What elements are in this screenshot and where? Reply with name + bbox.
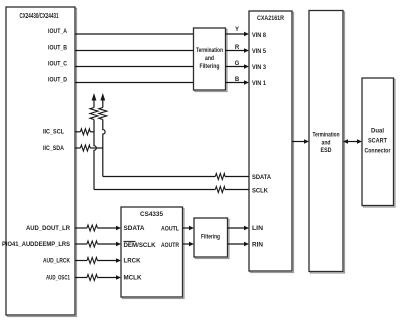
- wire pullup right lower with hop at SCL crossing: [103, 120, 105, 177]
- wire AOUTL with arrow into Filtering: [183, 226, 195, 231]
- svg-text:SCLK: SCLK: [252, 188, 269, 194]
- svg-text:AUD_LRCK: AUD_LRCK: [43, 259, 71, 265]
- IC U3 CS4335 block: [121, 207, 184, 299]
- svg-text:Connector: Connector: [365, 149, 392, 155]
- svg-text:SDATA: SDATA: [124, 226, 146, 232]
- svg-text:B: B: [235, 77, 240, 83]
- wire PIO41_AUDDEEMP_LRS with resistor R8 and arrow into CS4335: [75, 241, 121, 247]
- svg-text:AUD_OSC1: AUD_OSC1: [46, 276, 70, 282]
- svg-text:AUD_DOUT_LR: AUD_DOUT_LR: [26, 226, 71, 232]
- IC U2 CXA2161R block: [249, 11, 294, 273]
- wire CXA2161R to Termination and ESD with right arrow: [292, 139, 309, 144]
- wire B with arrow into CXA2161R: [226, 80, 250, 85]
- svg-text:IOUT_B: IOUT_B: [48, 46, 68, 52]
- svg-text:IOUT_A: IOUT_A: [48, 29, 68, 35]
- svg-text:Termination: Termination: [313, 133, 340, 139]
- block Termination and ESD: [309, 11, 345, 274]
- resistor R3 pullup SCL: [90, 108, 98, 120]
- block Dual SCART Connector: [362, 78, 395, 207]
- svg-text:CX24430/CX24431: CX24430/CX24431: [20, 13, 59, 20]
- resistor R6 series SCLK: [215, 187, 225, 193]
- wire pullup left lower with hop over SDA: [94, 120, 96, 190]
- svg-text:MCLK: MCLK: [124, 276, 143, 282]
- svg-text:Filtering: Filtering: [201, 234, 220, 240]
- svg-text:Y: Y: [235, 27, 239, 33]
- svg-text:and: and: [322, 141, 331, 147]
- svg-text:VIN 3: VIN 3: [252, 65, 267, 71]
- pin label DEM/SCLK with overbar on DEM: [124, 241, 157, 248]
- wire SCL to pullup node: [90, 131, 94, 133]
- wire SDA to pullup node: [90, 147, 103, 149]
- wire IOUT_A to termination block: [75, 33, 194, 35]
- svg-text:and: and: [205, 56, 214, 62]
- resistor R4 pullup SDA: [99, 108, 107, 120]
- svg-text:RIN: RIN: [252, 243, 263, 249]
- block Termination and Filtering: [194, 28, 228, 92]
- svg-text:Filtering: Filtering: [200, 64, 220, 70]
- wire LIN with arrow into CXA2161R: [228, 226, 250, 231]
- svg-text:SDATA: SDATA: [252, 175, 272, 181]
- resistor R2 series SDA: [80, 145, 90, 151]
- svg-text:R: R: [235, 45, 240, 51]
- wire IIC_SDA: [75, 147, 80, 149]
- wire SDATA to CXA2161R: [225, 176, 249, 178]
- svg-text:CS4335: CS4335: [140, 211, 163, 218]
- wire IIC_SCL: [75, 131, 80, 133]
- block Filtering: [194, 218, 229, 259]
- wire IOUT_C to termination block: [75, 66, 194, 68]
- svg-text:Termination: Termination: [196, 48, 223, 54]
- wire pullup right upper: [102, 98, 104, 108]
- wire IOUT_B to termination block: [75, 50, 194, 52]
- wire SCLK run: [94, 189, 215, 191]
- wire AUD_LRCK with resistor R9 and arrow into CS4335: [75, 258, 121, 264]
- wire R with arrow into CXA2161R: [226, 48, 250, 53]
- wire Termination and ESD to SCART double arrow: [343, 139, 362, 144]
- svg-text:IIC_SCL: IIC_SCL: [43, 130, 64, 136]
- svg-text:VIN 8: VIN 8: [252, 33, 267, 39]
- svg-text:IOUT_D: IOUT_D: [48, 78, 68, 84]
- svg-text:CXA2161R: CXA2161R: [257, 15, 284, 22]
- svg-text:IOUT_C: IOUT_C: [48, 62, 68, 68]
- wire G with arrow into CXA2161R: [226, 64, 250, 69]
- wire AOUTR with arrow into Filtering: [183, 242, 195, 247]
- svg-text:AOUTL: AOUTL: [161, 226, 179, 232]
- power arrow pullup right: [100, 93, 105, 101]
- svg-text:LIN: LIN: [252, 226, 263, 232]
- IC U1 CX24430/CX24431 block: [6, 7, 77, 317]
- wire AUD_OSC1 with resistor R10 and arrow into CS4335: [75, 275, 121, 281]
- svg-text:IIC_SDA: IIC_SDA: [43, 146, 65, 152]
- resistor R1 series SCL: [80, 129, 90, 135]
- resistor R5 series SDATA: [215, 174, 225, 180]
- svg-text:VIN 1: VIN 1: [252, 81, 267, 87]
- svg-text:SCART: SCART: [368, 139, 387, 145]
- wire pullup left upper: [93, 98, 95, 108]
- svg-text:VIN 5: VIN 5: [252, 49, 267, 55]
- svg-text:ESD: ESD: [321, 148, 333, 154]
- wire SCLK to CXA2161R: [225, 189, 249, 191]
- svg-text:PIO41_AUDDEEMP_LRS: PIO41_AUDDEEMP_LRS: [2, 242, 70, 248]
- power arrow pullup left: [92, 93, 97, 101]
- svg-text:G: G: [235, 61, 240, 67]
- svg-text:LRCK: LRCK: [124, 259, 142, 265]
- wire RIN with arrow into CXA2161R: [228, 242, 250, 247]
- svg-text:AOUTR: AOUTR: [161, 243, 180, 249]
- wire Y with arrow into CXA2161R: [226, 32, 250, 37]
- wire IOUT_D to termination block: [75, 82, 194, 84]
- wire SDATA run: [103, 176, 216, 178]
- svg-text:Dual: Dual: [371, 129, 384, 135]
- svg-text:DEM/SCLK: DEM/SCLK: [124, 243, 157, 249]
- wire AUD_DOUT_LR with resistor R7 and arrow into CS4335: [75, 225, 121, 231]
